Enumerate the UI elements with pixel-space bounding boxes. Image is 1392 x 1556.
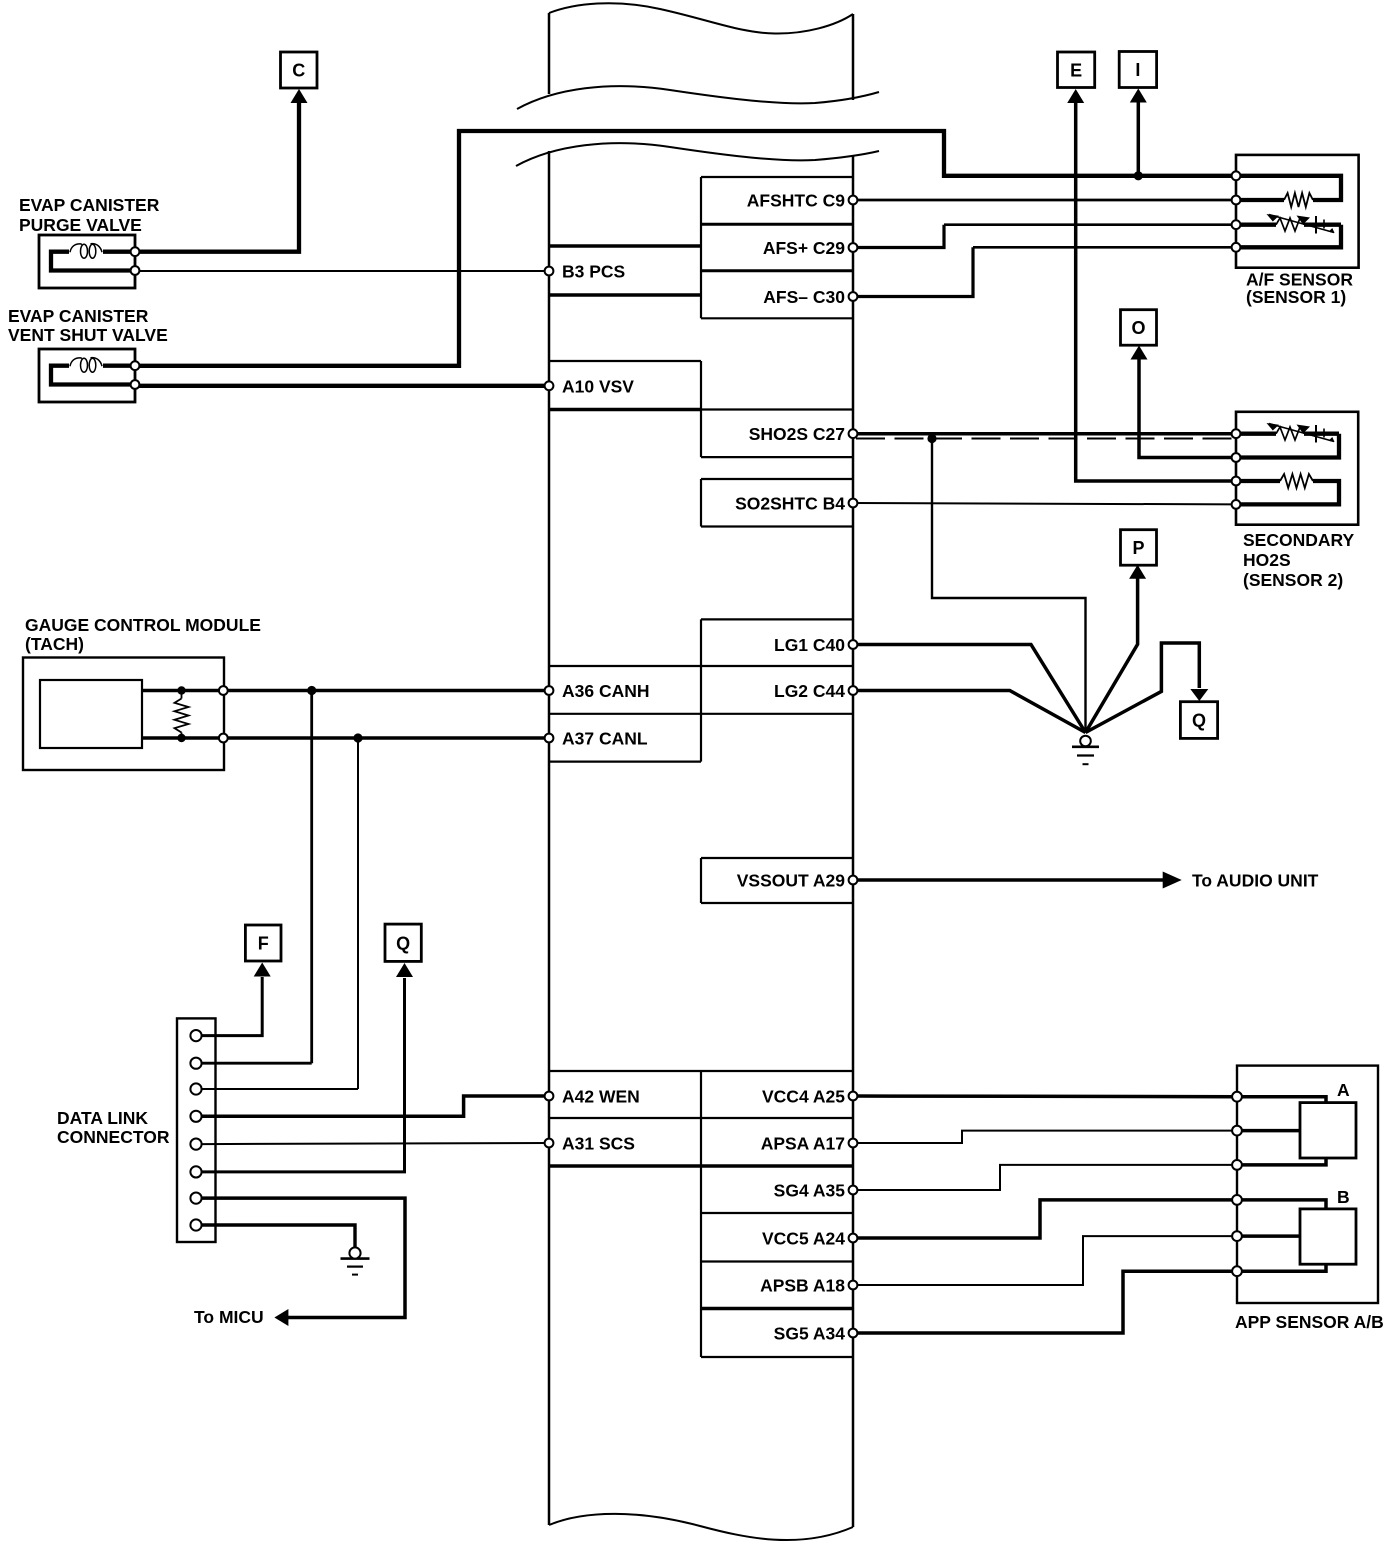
- svg-text:A: A: [1337, 1080, 1350, 1100]
- svg-text:VCC4 A25: VCC4 A25: [762, 1087, 845, 1107]
- svg-text:A31 SCS: A31 SCS: [562, 1134, 635, 1154]
- svg-text:(TACH): (TACH): [25, 634, 84, 654]
- svg-text:DATA LINK: DATA LINK: [57, 1108, 148, 1128]
- svg-text:LG1 C40: LG1 C40: [774, 635, 845, 655]
- svg-text:(SENSOR 1): (SENSOR 1): [1246, 287, 1346, 307]
- svg-text:I: I: [1135, 60, 1140, 80]
- svg-text:SG4 A35: SG4 A35: [774, 1181, 846, 1201]
- svg-text:SO2SHTC B4: SO2SHTC B4: [735, 494, 845, 514]
- svg-text:AFS– C30: AFS– C30: [763, 287, 845, 307]
- svg-text:SECONDARY: SECONDARY: [1243, 530, 1354, 550]
- svg-text:EVAP CANISTER: EVAP CANISTER: [8, 306, 149, 326]
- svg-text:VSSOUT A29: VSSOUT A29: [737, 871, 846, 891]
- svg-text:C: C: [292, 61, 305, 81]
- svg-text:SG5 A34: SG5 A34: [774, 1324, 846, 1344]
- svg-text:HO2S: HO2S: [1243, 550, 1291, 570]
- svg-text:Q: Q: [396, 933, 410, 953]
- svg-text:APSB A18: APSB A18: [760, 1276, 845, 1296]
- svg-text:To MICU: To MICU: [194, 1307, 264, 1327]
- svg-text:APSA A17: APSA A17: [761, 1134, 845, 1154]
- svg-text:Q: Q: [1192, 711, 1206, 731]
- svg-text:P: P: [1132, 538, 1144, 558]
- svg-text:AFSHTC C9: AFSHTC C9: [747, 191, 845, 211]
- svg-text:O: O: [1131, 318, 1145, 338]
- svg-text:A37 CANL: A37 CANL: [562, 729, 648, 749]
- svg-text:CONNECTOR: CONNECTOR: [57, 1127, 170, 1147]
- svg-text:To AUDIO UNIT: To AUDIO UNIT: [1192, 871, 1319, 891]
- svg-text:EVAP CANISTER: EVAP CANISTER: [19, 195, 160, 215]
- svg-text:APP SENSOR A/B: APP SENSOR A/B: [1235, 1312, 1384, 1332]
- svg-text:A36 CANH: A36 CANH: [562, 681, 650, 701]
- svg-text:B: B: [1337, 1187, 1350, 1207]
- svg-text:GAUGE CONTROL MODULE: GAUGE CONTROL MODULE: [25, 615, 261, 635]
- svg-text:SHO2S C27: SHO2S C27: [749, 424, 845, 444]
- svg-text:PURGE VALVE: PURGE VALVE: [19, 215, 142, 235]
- svg-text:E: E: [1070, 60, 1082, 80]
- svg-text:B3 PCS: B3 PCS: [562, 262, 625, 282]
- svg-text:A10 VSV: A10 VSV: [562, 377, 634, 397]
- svg-text:A42 WEN: A42 WEN: [562, 1087, 640, 1107]
- svg-text:VCC5 A24: VCC5 A24: [762, 1229, 845, 1249]
- svg-text:LG2 C44: LG2 C44: [774, 681, 845, 701]
- svg-text:F: F: [258, 934, 269, 954]
- svg-text:AFS+ C29: AFS+ C29: [763, 238, 845, 258]
- svg-text:(SENSOR 2): (SENSOR 2): [1243, 570, 1343, 590]
- svg-text:VENT SHUT VALVE: VENT SHUT VALVE: [8, 325, 168, 345]
